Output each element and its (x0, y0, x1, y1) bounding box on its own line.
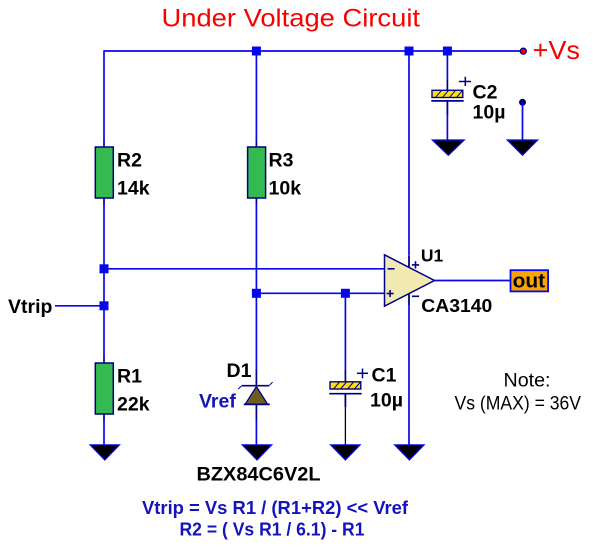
svg-text:U1: U1 (421, 245, 444, 265)
svg-text:10k: 10k (269, 178, 302, 200)
wire Vtrip tap (55, 305, 104, 307)
resistor R2 (95, 147, 149, 200)
wire R1 bottom to ground (103, 420, 105, 445)
ground below R1 (90, 445, 120, 460)
wire return dot to ground (522, 102, 524, 140)
capacitor C1 (329, 365, 403, 412)
node junction R3/non-inverting-input (252, 289, 261, 298)
svg-text:R1: R1 (117, 365, 142, 387)
op-amp U1 (385, 255, 435, 306)
svg-text:+Vs: +Vs (533, 35, 581, 65)
wire rail down to C2 (446, 51, 448, 78)
svg-text:Vs (MAX) = 36V: Vs (MAX) = 36V (455, 394, 582, 415)
pin stub opamp V+ (408, 256, 410, 268)
pin stub D1 top (255, 370, 257, 386)
capacitor C2 (431, 77, 505, 124)
zener diode D1 (238, 382, 272, 404)
node junction Vtrip (100, 301, 109, 310)
pin stub R3 top (255, 142, 257, 148)
wire op-amp output (435, 280, 511, 282)
node junction R2/inverting-input (100, 264, 109, 273)
pin stub R1 bottom (103, 414, 105, 420)
pin stub D1 bottom (255, 404, 257, 420)
svg-text:Note:: Note: (504, 371, 551, 392)
pin stub R2 top (103, 142, 105, 148)
wire C1 tap down (344, 293, 346, 370)
svg-text:10µ: 10µ (473, 102, 506, 124)
wire opamp V+ from rail (408, 51, 410, 256)
ground below C1 (331, 445, 361, 460)
wire non-inverting input (to op-amp plus) (256, 292, 384, 294)
pin stub C1 bottom (344, 394, 346, 407)
wire rail down to R2 (103, 50, 105, 142)
pin stub R3 bottom (255, 198, 257, 204)
pin marking V+ plus (412, 261, 419, 268)
svg-text:Under Voltage Circuit: Under Voltage Circuit (162, 5, 421, 33)
ground supply return (507, 140, 538, 155)
svg-text:C1: C1 (372, 365, 397, 387)
svg-text:C2: C2 (473, 82, 498, 104)
pin stub C2 bottom (446, 101, 448, 115)
svg-text:Vtrip: Vtrip (8, 296, 53, 318)
pin stub opamp V- (408, 294, 410, 306)
resistor R3 (248, 147, 302, 200)
out box (511, 270, 549, 293)
wire D1 to ground (255, 420, 257, 445)
pin marking V- minus (412, 295, 419, 297)
svg-text:Vref: Vref (199, 391, 236, 413)
wire opamp V- to ground (408, 306, 410, 445)
wire C2 to ground (446, 115, 448, 140)
pin stub R2 bottom (103, 198, 105, 204)
wire rail down to R3 (255, 51, 257, 142)
ground below D1 (242, 445, 272, 460)
wire R2 bottom to R1 top (103, 204, 105, 358)
node junction rail-opamp V+ (405, 47, 414, 56)
svg-text:10µ: 10µ (370, 389, 403, 411)
svg-text:14k: 14k (117, 178, 150, 200)
svg-text:out: out (513, 271, 546, 293)
wire R3 bottom to D1 (255, 204, 257, 370)
wire C1 to ground (black) (344, 407, 346, 445)
wire top supply rail (104, 50, 523, 52)
svg-text:D1: D1 (227, 360, 252, 382)
pin stub C2 top (446, 78, 448, 90)
wire inverting input (to op-amp minus) (104, 268, 385, 270)
pin stub R1 top (103, 358, 105, 364)
ground below C2 (432, 140, 464, 155)
node junction rail-C2 (443, 47, 452, 56)
node junction C1 tap (341, 289, 350, 298)
resistor R1 (95, 363, 149, 415)
svg-text:R2 = ( Vs R1 / 6.1) - R1: R2 = ( Vs R1 / 6.1) - R1 (180, 518, 365, 539)
svg-text:Vtrip = Vs R1 / (R1+R2) << Vre: Vtrip = Vs R1 / (R1+R2) << Vref (142, 497, 409, 518)
svg-text:CA3140: CA3140 (421, 296, 492, 316)
terminal +Vs red dot (520, 48, 526, 54)
ground below op-amp (395, 445, 425, 460)
terminal supply-return dot (519, 99, 525, 105)
svg-text:22k: 22k (117, 393, 150, 415)
node junction rail-R3 (252, 47, 261, 56)
svg-text:R2: R2 (117, 150, 142, 172)
pin stub C1 top (344, 370, 346, 382)
svg-text:BZX84C6V2L: BZX84C6V2L (197, 464, 321, 486)
svg-text:R3: R3 (269, 150, 294, 172)
